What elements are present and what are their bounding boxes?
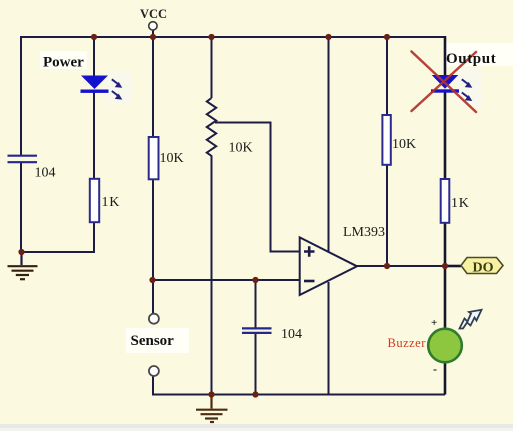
wire op-amp VCC pin: [328, 36, 330, 252]
wire minus input line: [152, 279, 300, 281]
label background power arrows: [106, 71, 131, 104]
svg-text:104: 104: [35, 166, 56, 181]
capacitor C1 104 plates: [8, 156, 38, 163]
node minus line left: [149, 277, 155, 283]
node pullup on rail: [384, 34, 390, 40]
label background Sensor: [126, 328, 189, 353]
wire 1K to DO node: [444, 223, 447, 266]
resistor R4 1K body: [441, 179, 450, 223]
wire minus node to sensor top: [152, 281, 154, 314]
svg-text:Power: Power: [43, 55, 84, 71]
wire bottom ground rail: [153, 394, 445, 396]
node left ground junction: [18, 249, 24, 255]
wire op-amp GND pin: [328, 282, 330, 395]
resistor R1 1K body: [90, 179, 99, 222]
svg-text:10K: 10K: [229, 141, 253, 156]
wire left column bottom: [20, 163, 22, 252]
wire VCC terminal stub: [152, 30, 154, 38]
wire buzzer to ground rail: [444, 362, 447, 395]
ground GND2 bottom: [196, 395, 228, 423]
buzzer: [428, 329, 462, 363]
wire pot top: [211, 36, 213, 98]
sensor terminal circle bottom: [149, 366, 159, 376]
node ground rail cap2: [252, 391, 258, 397]
label background Output: [444, 43, 513, 66]
svg-text:104: 104: [281, 327, 302, 342]
wire DO node to buzzer: [444, 266, 447, 329]
wire output LED column from rail: [444, 36, 447, 76]
wire left column top: [20, 36, 22, 155]
svg-text:LM393: LM393: [343, 225, 385, 240]
LED D1 Power: [81, 76, 109, 93]
resistor R3 10K body: [382, 115, 390, 165]
wire op-amp output: [356, 265, 446, 267]
svg-text:-: -: [433, 362, 437, 376]
svg-text:VCC: VCC: [140, 7, 167, 21]
wire LED column bottom: [93, 222, 95, 253]
wire LED column mid: [93, 91, 95, 179]
LED D2 arrows: [462, 79, 473, 101]
label background Power: [40, 51, 87, 69]
wire output LED to 1K: [444, 90, 447, 179]
wire VCC column to 10K: [152, 36, 154, 137]
potentiometer RP1 zigzag: [207, 98, 216, 159]
op-amp minus input symbol: [304, 280, 315, 283]
VCC terminal circle: [149, 22, 157, 30]
svg-text:DO: DO: [473, 261, 494, 276]
node output DO: [442, 263, 448, 269]
wire top rail VCC: [21, 36, 445, 38]
LED D1 arrows: [112, 79, 123, 99]
wire cap2 column top: [255, 280, 257, 328]
LED D2 Output: [431, 75, 459, 93]
wire 10K to minus node: [152, 179, 154, 281]
node opamp VCC on rail: [325, 34, 331, 40]
label background output arrows: [456, 68, 481, 106]
sensor terminal circle top: [149, 314, 159, 324]
svg-text:1K: 1K: [451, 196, 470, 211]
svg-text:1K: 1K: [102, 195, 121, 210]
resistor R2 10K body: [149, 137, 159, 179]
svg-text:+: +: [431, 317, 437, 329]
bottom gray band: [0, 424, 513, 431]
wire LED column top: [93, 36, 95, 77]
capacitor C2 104 plates: [242, 328, 272, 333]
node VCC column on rail: [150, 34, 156, 40]
wire pullup column top: [386, 36, 388, 115]
wire sensor bottom to ground rail: [153, 376, 212, 395]
wire DO stub: [445, 265, 461, 268]
DO flag: [461, 258, 503, 276]
red cross over output LED: [412, 52, 477, 113]
op-amp plus input symbol: [304, 246, 315, 256]
wire pot wiper to plus input: [215, 123, 300, 252]
wire node junction row to 1K: [21, 251, 94, 253]
buzzer spark arrow icon: [460, 310, 482, 329]
wire cap2 column bottom: [255, 334, 257, 395]
ground GND1 left: [8, 252, 38, 279]
svg-text:10K: 10K: [392, 137, 416, 152]
node output pullup: [384, 263, 390, 269]
node minus line cap2: [252, 277, 258, 283]
op-amp U1 LM393: [300, 237, 357, 295]
wire pullup column bottom: [386, 165, 388, 266]
node LED column on rail: [91, 34, 97, 40]
svg-text:10K: 10K: [160, 151, 184, 166]
svg-text:Sensor: Sensor: [131, 333, 175, 349]
node pot column on rail: [208, 34, 214, 40]
svg-text:Buzzer: Buzzer: [388, 336, 427, 350]
wire pot bottom: [211, 158, 213, 395]
node ground rail pot: [208, 391, 214, 397]
svg-text:Output: Output: [446, 51, 496, 67]
